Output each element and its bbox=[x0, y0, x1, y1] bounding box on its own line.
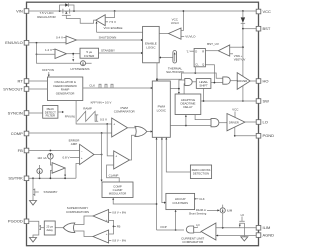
box ADAPTIVE DEADTIME DELAY bbox=[175, 94, 201, 115]
svg-text:0.5 V: 0.5 V bbox=[100, 118, 107, 122]
wire buffer output to SS bbox=[64, 168, 66, 178]
arrow HO into deadtime bbox=[178, 92, 180, 94]
node HO branch bbox=[178, 88, 180, 90]
wire EN/UVLO input bbox=[29, 42, 66, 44]
wire VCC ENABLE bbox=[97, 23, 143, 32]
wire SYNCOUT bbox=[29, 88, 48, 90]
wire error amp output bbox=[94, 154, 102, 156]
arrow ILIM adjust bbox=[207, 209, 220, 211]
node EN hysteresis branch bbox=[36, 42, 38, 44]
svg-text:0.4 V: 0.4 V bbox=[56, 36, 63, 40]
label ERROR AMP bbox=[69, 139, 81, 146]
node rail BST tap bbox=[242, 10, 244, 12]
box 25us delay bbox=[44, 221, 55, 235]
svg-text:K​FF*V​IN = 0.5 V: K​FF*V​IN = 0.5 V bbox=[91, 101, 112, 105]
svg-text:Shunt Sensing: Shunt Sensing bbox=[189, 212, 207, 216]
svg-text:V​BST-UV: V​BST-UV bbox=[234, 58, 246, 62]
svg-text:−: − bbox=[81, 149, 83, 153]
svg-text:COMPARATORS: COMPARATORS bbox=[66, 210, 89, 214]
pin PGND bbox=[256, 133, 274, 138]
pin SS/TRK bbox=[8, 176, 28, 181]
svg-text:F​P(VIN): F​P(VIN) bbox=[65, 115, 75, 119]
node BST bbox=[242, 28, 244, 30]
wire FB input bbox=[29, 150, 80, 152]
wire PWM logic to zero-cross bbox=[166, 137, 190, 172]
pin ILIM bbox=[256, 225, 270, 230]
node COMP error amp tap bbox=[101, 132, 103, 134]
pin BST bbox=[256, 26, 271, 31]
svg-text:VCC: VCC bbox=[232, 108, 239, 112]
wire comparator to gate bbox=[194, 231, 201, 233]
label THERMAL SHUTDOWN bbox=[166, 66, 184, 74]
comparator PWM bbox=[112, 118, 128, 137]
box HICCUP COUNTERS bbox=[166, 193, 195, 209]
wire comparator to filter bbox=[67, 53, 81, 55]
arrow into PWM logic (hiccup) bbox=[161, 138, 163, 140]
svg-text:+: + bbox=[81, 156, 83, 160]
comparator enable 1.2V bbox=[55, 49, 67, 59]
wire AGND pin drop bbox=[243, 236, 245, 237]
transistor LDO pass FET bbox=[62, 9, 96, 24]
wire BST_UV sense bbox=[230, 46, 243, 48]
wire to DFF CL bbox=[194, 67, 196, 73]
node error amp output bbox=[101, 154, 103, 156]
wire COMP node vertical bbox=[101, 133, 103, 180]
svg-text:LO: LO bbox=[241, 213, 244, 217]
wire bypass loop bbox=[60, 5, 74, 11]
wire SS to buffer bbox=[50, 171, 52, 179]
wire LDO sense input bbox=[105, 11, 114, 18]
pin HO bbox=[256, 78, 268, 83]
clock pulses glyph bbox=[99, 84, 113, 88]
driver HO bbox=[237, 73, 250, 90]
arrow thermal into enable logic bbox=[159, 56, 173, 58]
wire OCP bbox=[157, 229, 185, 231]
wire LO driver return to PGND bbox=[234, 127, 236, 136]
svg-text:SS/TRK: SS/TRK bbox=[8, 176, 23, 181]
node hiccup OCP bbox=[175, 229, 177, 231]
pin EN/UVLO bbox=[5, 40, 29, 45]
label RILIM or Shunt Sensing bbox=[189, 208, 207, 215]
wire PGND bbox=[235, 135, 256, 137]
node level shift / Q junction bbox=[214, 82, 216, 84]
wire PWM logic OCP vertical bbox=[156, 137, 158, 230]
wire PWM logic to hiccup counters bbox=[162, 137, 164, 202]
svg-text:ILIM: ILIM bbox=[227, 209, 233, 213]
svg-text:DRIVER: DRIVER bbox=[229, 120, 239, 124]
diode VCC to BST bbox=[241, 11, 245, 29]
wire EN vertical to PWM logic bbox=[156, 63, 158, 80]
arrow peak detect output bbox=[58, 111, 64, 113]
wire clamp reference bbox=[107, 165, 120, 182]
svg-text:RAMP: RAMP bbox=[83, 106, 92, 110]
pin SYNCOUT bbox=[3, 86, 29, 91]
arrow shutdown into enable logic bbox=[141, 39, 143, 41]
pin SW bbox=[256, 98, 269, 103]
svg-text:0.8 V: 0.8 V bbox=[62, 156, 69, 160]
gate OR PGOOD (mirrored, output left) bbox=[63, 223, 75, 233]
arrow comp AGND input bbox=[216, 235, 218, 237]
svg-text:FILTER: FILTER bbox=[84, 54, 95, 58]
wire COMP input bbox=[29, 132, 112, 134]
svg-text:LO: LO bbox=[263, 119, 268, 124]
wire EN to 1.2V comparator bbox=[37, 43, 56, 55]
pin COMP bbox=[11, 131, 29, 136]
svg-text:STANDBY: STANDBY bbox=[44, 190, 58, 194]
op-amp SS buffer bbox=[52, 163, 65, 174]
pin FB bbox=[18, 148, 29, 153]
svg-text:SHUTDOWN: SHUTDOWN bbox=[99, 36, 117, 40]
svg-text:MODULATOR: MODULATOR bbox=[109, 191, 127, 195]
comparator COMP clamp bbox=[114, 151, 130, 169]
IC boundary box bbox=[27, 2, 259, 246]
gate AND HO final bbox=[223, 77, 230, 84]
op-amp error amplifier bbox=[80, 144, 94, 164]
pin VIN bbox=[16, 8, 29, 13]
svg-text:V​CC ENABLE: V​CC ENABLE bbox=[103, 26, 122, 30]
svg-text:+: + bbox=[113, 122, 115, 126]
pin RT bbox=[18, 78, 29, 83]
pin PGOOD bbox=[8, 219, 29, 224]
label SUPERVISORY COMPARATORS bbox=[66, 206, 89, 214]
node rail-loop-right bbox=[73, 10, 75, 12]
arrow VCC enable up bbox=[96, 21, 98, 23]
label 0.8 V ref bbox=[62, 156, 79, 160]
node hiccup mode tap bbox=[156, 203, 158, 205]
svg-text:+: + bbox=[106, 218, 108, 222]
node filter branch bbox=[72, 53, 74, 55]
box LEVEL SHIFT bbox=[196, 79, 211, 89]
wire SYNCIN bbox=[29, 112, 43, 114]
svg-text:7.5 V: 7.5 V bbox=[109, 20, 116, 24]
svg-text:VIN: VIN bbox=[16, 8, 23, 13]
wire hiccup to OCP bbox=[175, 211, 177, 230]
wire EN hysteresis bbox=[37, 54, 92, 63]
svg-text:COUNTERS: COUNTERS bbox=[172, 201, 188, 205]
svg-text:UVLO: UVLO bbox=[171, 21, 180, 25]
svg-text:110 nA: 110 nA bbox=[37, 156, 46, 160]
svg-text:DRIVER: DRIVER bbox=[237, 79, 247, 83]
svg-text:AGND: AGND bbox=[263, 233, 275, 238]
svg-text:BST_UV: BST_UV bbox=[207, 42, 219, 46]
wire PGOOD pin bbox=[29, 221, 39, 224]
label 7.5 V ref bbox=[105, 20, 116, 24]
svg-text:+: + bbox=[115, 155, 117, 159]
node DFF clock tap bbox=[194, 72, 196, 74]
node level shift SW bbox=[203, 100, 205, 102]
svg-text:1.2 V: 1.2 V bbox=[45, 48, 52, 52]
wire gate to HO driver bbox=[230, 80, 237, 82]
wire RAMP to PWM comparator bbox=[76, 101, 112, 125]
wire deadtime to HO gate bbox=[183, 84, 186, 94]
box 5us filter bbox=[80, 48, 99, 58]
wire SHUTDOWN bbox=[77, 39, 142, 41]
arrow CLK into PWM logic bbox=[151, 87, 153, 89]
wire ramp to clamp comparator bbox=[107, 124, 114, 156]
wire Q output down bbox=[205, 65, 214, 83]
thermal shutdown sensor bbox=[173, 51, 177, 64]
svg-text:25 μs: 25 μs bbox=[46, 224, 53, 228]
svg-text:OCP: OCP bbox=[160, 225, 167, 229]
svg-text:DELAY: DELAY bbox=[183, 105, 192, 109]
svg-text:LOGIC: LOGIC bbox=[146, 45, 156, 49]
svg-text:FILTER: FILTER bbox=[46, 114, 55, 118]
wire VIN rail bbox=[29, 10, 256, 12]
wire SW bbox=[201, 100, 256, 102]
current source ILIM bbox=[220, 205, 225, 228]
svg-text:SHIFT: SHIFT bbox=[199, 84, 208, 88]
wire SS/TRK bbox=[29, 164, 80, 179]
svg-text:LOGIC: LOGIC bbox=[157, 109, 167, 113]
diode bypass (on loop) bbox=[65, 3, 68, 6]
gate OR pwm bbox=[135, 126, 147, 136]
svg-text:DETECTION: DETECTION bbox=[193, 172, 209, 176]
svg-text:CLK: CLK bbox=[199, 197, 205, 201]
wire PWM LO output bbox=[170, 125, 211, 127]
box ENABLE LOGIC bbox=[143, 26, 160, 62]
wire mode to clamp modulator bbox=[112, 198, 156, 204]
label CLK hiccup bbox=[195, 197, 205, 201]
wire FB sense node bbox=[109, 220, 114, 234]
arrow into hiccup counters bbox=[164, 202, 166, 204]
svg-text:STANDBY: STANDBY bbox=[101, 49, 115, 53]
arrow into PWM logic (OCP) bbox=[156, 138, 158, 140]
wire ILIM sense bbox=[216, 227, 256, 229]
label 0.8 V + 8% bbox=[109, 211, 127, 215]
svg-text:CLAMP: CLAMP bbox=[109, 173, 119, 177]
svg-text:CL: CL bbox=[195, 63, 199, 67]
svg-text:SYNCIN: SYNCIN bbox=[8, 110, 23, 115]
wire gate to delay bbox=[55, 227, 63, 229]
svg-text:GENERATOR: GENERATOR bbox=[56, 91, 76, 95]
label VCC driver supply bbox=[232, 108, 239, 118]
comparator BST_UV (points left) bbox=[207, 42, 230, 56]
current source hysteresis bbox=[81, 61, 86, 66]
node ILIM source tap bbox=[222, 227, 224, 229]
label '1' bbox=[186, 49, 194, 53]
label CURRENT LIMIT COMPARATOR bbox=[181, 236, 204, 244]
op-amp LDO error amp (points left) bbox=[96, 15, 105, 26]
wire BST bbox=[243, 28, 256, 30]
arrow into PWM logic top bbox=[156, 80, 158, 82]
wire STANDBY bbox=[99, 52, 142, 54]
arrow hysteresis control bbox=[72, 59, 74, 61]
label 7.5 V LDO REGULATOR bbox=[37, 11, 56, 19]
arrow standby into enable logic bbox=[141, 52, 143, 54]
node SW return bbox=[242, 100, 244, 102]
wire gate to LO driver bbox=[219, 122, 227, 124]
ground SS discharge bbox=[30, 201, 37, 206]
flip-flop BST UV latch bbox=[194, 49, 205, 67]
wire hysteresis control (dashed) bbox=[72, 55, 74, 60]
gate AND LO bbox=[211, 119, 219, 127]
wire HO driver return to SW bbox=[242, 86, 244, 101]
svg-text:PGND: PGND bbox=[263, 133, 275, 138]
arrow LO into deadtime bottom bbox=[185, 115, 187, 126]
driver LO bbox=[227, 114, 245, 131]
label FB sense bbox=[114, 225, 121, 229]
transistor shunt-sense FET bbox=[239, 217, 245, 236]
svg-text:R: R bbox=[202, 50, 204, 54]
node ramp clamp tap bbox=[106, 123, 108, 125]
box PEAK DETECT FILTER bbox=[43, 106, 58, 119]
pin LO bbox=[256, 119, 268, 124]
wire HO out bbox=[250, 80, 256, 82]
svg-text:AMP: AMP bbox=[71, 142, 78, 146]
wire clamp comp output to OR bbox=[130, 135, 137, 160]
svg-text:K​FF*V​IN: K​FF*V​IN bbox=[42, 68, 54, 72]
pin VCC bbox=[256, 9, 271, 14]
node FB sense bbox=[113, 226, 115, 228]
comparator shutdown 0.4V bbox=[66, 36, 77, 44]
comparator PGOOD UV (points left) bbox=[93, 230, 109, 243]
svg-text:'1': '1' bbox=[186, 49, 189, 53]
wire LO out bbox=[245, 121, 256, 123]
svg-text:SW: SW bbox=[263, 98, 270, 103]
svg-text:EN/UVLO: EN/UVLO bbox=[5, 40, 23, 45]
wire gate to level shift bbox=[192, 81, 196, 83]
node rail-loop-left bbox=[59, 10, 61, 12]
svg-text:D: D bbox=[195, 50, 197, 54]
svg-text:FB: FB bbox=[18, 148, 23, 153]
label VUVLO bbox=[181, 35, 196, 39]
ground PGOOD bbox=[30, 238, 37, 243]
wire BST_UV output to R bbox=[205, 50, 218, 52]
node LO deadtime tap bbox=[185, 125, 187, 127]
wire BST down to driver bbox=[242, 29, 244, 77]
wire EN branch to DFF clock and HO gate bbox=[157, 73, 223, 79]
pin SYNCIN bbox=[8, 110, 29, 115]
svg-text:+: + bbox=[106, 232, 108, 236]
transistor SS standby discharge bbox=[33, 178, 39, 200]
svg-text:CLK: CLK bbox=[89, 84, 95, 88]
svg-text:PGOOD: PGOOD bbox=[8, 219, 23, 224]
gate AND OCP (mirrored, output left) bbox=[186, 226, 193, 233]
label PWM COMPARATOR bbox=[114, 106, 136, 114]
svg-text:COMPARATOR: COMPARATOR bbox=[182, 240, 204, 244]
wire 110nA to buffer bbox=[50, 159, 52, 165]
label 0.4 V bbox=[56, 36, 66, 40]
wire UV comp to PG gate bbox=[75, 231, 93, 237]
svg-text:HO: HO bbox=[263, 78, 269, 83]
label 1.2 V bbox=[45, 48, 55, 52]
wire UVLO output to enable logic bbox=[159, 33, 168, 35]
label VSW + VBST-UV bbox=[230, 54, 246, 62]
svg-text:VCC: VCC bbox=[263, 9, 272, 14]
box COMP CLAMP MODULATOR bbox=[102, 182, 133, 198]
arrow COMP into clamp modulator bbox=[101, 180, 103, 182]
comparator VCC UVLO (points left) bbox=[169, 17, 182, 39]
svg-text:BST: BST bbox=[263, 26, 271, 31]
svg-text:ILIM: ILIM bbox=[263, 225, 271, 230]
0.5V offset indicator bbox=[95, 115, 107, 122]
arrow into hiccup bottom bbox=[175, 210, 177, 212]
wire RT bbox=[29, 80, 48, 82]
wire OR to PWM logic bbox=[147, 131, 151, 133]
wire AGND reference bbox=[216, 235, 256, 237]
transistor PGOOD pulldown bbox=[33, 224, 44, 238]
gate AND HO (pre level-shift) bbox=[185, 78, 192, 85]
comparator CURRENT LIMIT (points left) bbox=[201, 223, 216, 240]
svg-text:HYSTERESIS: HYSTERESIS bbox=[70, 67, 89, 71]
svg-text:COMP: COMP bbox=[11, 131, 23, 136]
svg-text:LO: LO bbox=[196, 223, 199, 227]
svg-text:V​UVLO: V​UVLO bbox=[185, 35, 196, 39]
wire UVLO sense from rail bbox=[181, 11, 183, 31]
svg-text:COMPARATOR: COMPARATOR bbox=[114, 110, 136, 114]
node EN 1.2V branch bbox=[36, 53, 38, 55]
arrow OR into PWM logic bbox=[151, 130, 153, 132]
current source SS charge bbox=[37, 165, 42, 178]
wire deadtime to LO gate bbox=[195, 115, 211, 120]
node EN-PWM branch bbox=[156, 78, 158, 80]
svg-text:delay: delay bbox=[46, 228, 53, 232]
node BST_UV tap bbox=[242, 46, 244, 48]
wire PWM HO output bbox=[170, 80, 185, 92]
label 0.8 V - 8% bbox=[109, 239, 127, 243]
node SS taps bbox=[32, 177, 34, 179]
label LO sense gate bbox=[194, 223, 200, 227]
svg-text:0.8 V + 8%: 0.8 V + 8% bbox=[112, 211, 126, 215]
current source 110nA bbox=[37, 153, 53, 160]
comparator PGOOD OV (points left) bbox=[93, 210, 109, 223]
svg-text:0.8 V − 8%: 0.8 V − 8% bbox=[112, 239, 126, 243]
wire level shift to SW bbox=[203, 88, 205, 101]
wire CLK bbox=[83, 87, 151, 89]
svg-text:RT: RT bbox=[18, 78, 24, 83]
svg-text:Q: Q bbox=[202, 63, 204, 67]
svg-text:SYNCOUT: SYNCOUT bbox=[3, 86, 23, 91]
arrow into PWM logic (zero cross) bbox=[165, 138, 167, 140]
ground AGND bbox=[241, 237, 248, 241]
node PGND return bbox=[234, 135, 236, 137]
box PWM LOGIC bbox=[152, 81, 170, 137]
box ZERO-CROSS DETECTION bbox=[190, 165, 211, 179]
ramp waveform glyph bbox=[77, 111, 95, 122]
svg-text:FB: FB bbox=[117, 225, 121, 229]
wire PWM comp to OR bbox=[128, 127, 137, 129]
label Kff*VIN bbox=[42, 68, 54, 77]
box OSCILLATOR & FEEDFORWARD RAMP GENERATOR bbox=[48, 77, 83, 101]
pin AGND bbox=[256, 233, 274, 238]
svg-text:REGULATOR: REGULATOR bbox=[37, 15, 56, 19]
node rail-sense bbox=[114, 10, 116, 12]
node FB bias tap bbox=[50, 150, 52, 152]
wire level shift output bbox=[211, 82, 223, 84]
wire OV comp to PG gate bbox=[75, 216, 93, 225]
node rail UVLO tap bbox=[183, 10, 185, 12]
